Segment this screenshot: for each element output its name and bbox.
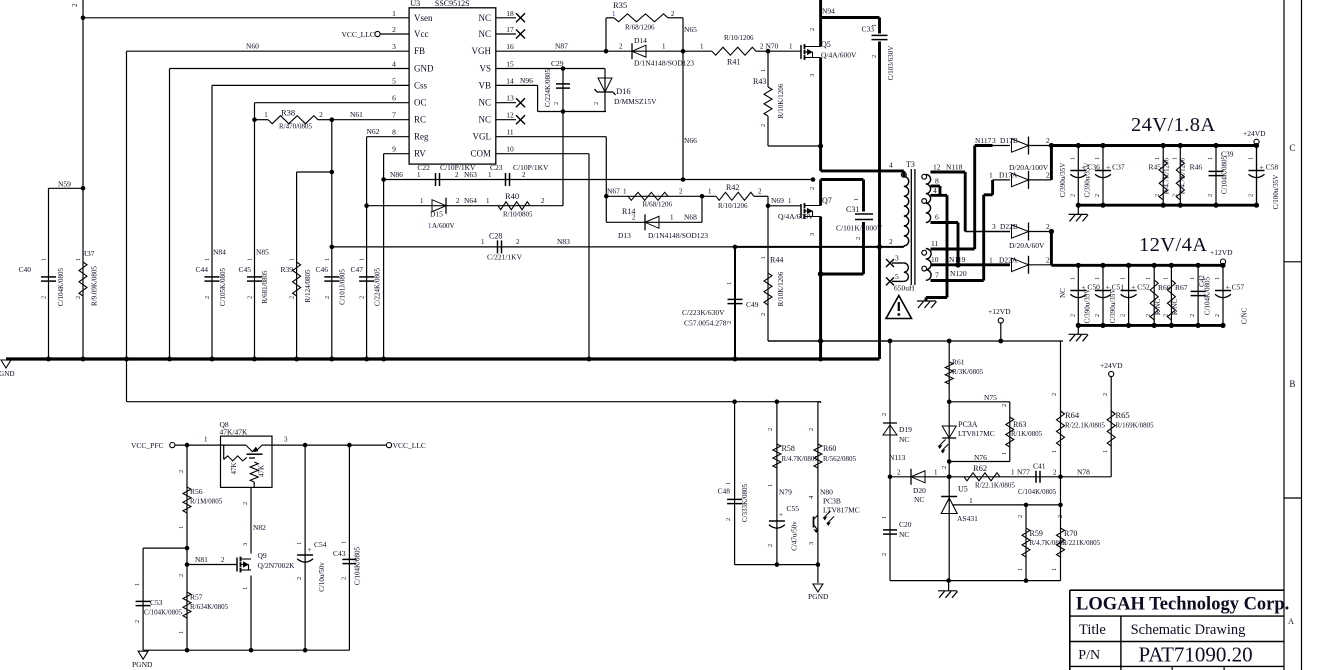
svg-text:P/N: P/N xyxy=(1078,648,1100,663)
svg-text:R58: R58 xyxy=(782,444,795,453)
svg-text:PAT71090.20: PAT71090.20 xyxy=(1139,643,1253,667)
svg-text:1: 1 xyxy=(623,188,627,196)
svg-text:B: B xyxy=(1289,379,1295,389)
svg-text:2: 2 xyxy=(41,296,48,299)
svg-text:15: 15 xyxy=(506,60,514,69)
svg-text:C55: C55 xyxy=(787,504,800,513)
svg-text:2: 2 xyxy=(221,556,225,564)
svg-text:1: 1 xyxy=(725,482,732,485)
svg-text:D15: D15 xyxy=(430,210,443,219)
svg-text:N94: N94 xyxy=(822,7,835,16)
svg-text:R/68/1206: R/68/1206 xyxy=(643,201,673,209)
svg-text:1: 1 xyxy=(767,484,774,487)
svg-text:1: 1 xyxy=(178,631,185,634)
svg-text:1: 1 xyxy=(1248,157,1255,160)
svg-text:1: 1 xyxy=(881,516,888,519)
svg-text:N60: N60 xyxy=(246,42,259,51)
svg-text:2: 2 xyxy=(855,237,862,240)
svg-text:C/224K/0805: C/224K/0805 xyxy=(374,267,382,306)
svg-text:U5: U5 xyxy=(958,485,968,494)
svg-text:C/100u/35V: C/100u/35V xyxy=(1272,175,1280,210)
svg-text:2: 2 xyxy=(1102,393,1109,396)
svg-text:C40: C40 xyxy=(18,265,31,274)
svg-text:1: 1 xyxy=(392,9,396,18)
svg-text:D16: D16 xyxy=(616,86,631,96)
svg-text:R/3K/0805: R/3K/0805 xyxy=(952,368,984,376)
svg-text:C20: C20 xyxy=(899,520,912,529)
svg-text:18: 18 xyxy=(506,9,514,18)
svg-text:R/9.09K/0805: R/9.09K/0805 xyxy=(91,266,99,306)
svg-text:C/221/1KV: C/221/1KV xyxy=(487,253,523,262)
svg-text:R70: R70 xyxy=(1064,529,1077,538)
svg-text:3: 3 xyxy=(992,136,996,145)
svg-text:2: 2 xyxy=(619,43,623,51)
svg-text:8: 8 xyxy=(392,128,396,137)
svg-text:C/10P/1KV: C/10P/1KV xyxy=(440,163,476,172)
svg-text:R/NC: R/NC xyxy=(1171,299,1179,316)
svg-text:2: 2 xyxy=(760,313,767,316)
svg-text:1: 1 xyxy=(1145,277,1152,280)
svg-text:2: 2 xyxy=(897,468,901,476)
svg-text:R/10/0805: R/10/0805 xyxy=(503,211,533,219)
svg-text:1: 1 xyxy=(1017,568,1024,571)
svg-text:R65: R65 xyxy=(1116,410,1130,420)
svg-text:C/101J/0805: C/101J/0805 xyxy=(339,269,347,305)
svg-text:R/470/0805: R/470/0805 xyxy=(279,123,313,131)
svg-text:R35: R35 xyxy=(613,0,627,10)
svg-text:2: 2 xyxy=(75,296,82,299)
svg-text:2: 2 xyxy=(881,553,888,556)
svg-text:1: 1 xyxy=(296,542,303,545)
svg-text:N82: N82 xyxy=(253,523,266,532)
svg-text:2: 2 xyxy=(809,28,816,31)
svg-text:1: 1 xyxy=(1094,277,1101,280)
svg-text:R40: R40 xyxy=(505,191,519,201)
svg-text:C/104K/0805: C/104K/0805 xyxy=(354,546,362,585)
svg-text:1: 1 xyxy=(341,541,348,544)
svg-text:1: 1 xyxy=(486,197,490,205)
svg-text:12V/4A: 12V/4A xyxy=(1139,234,1207,256)
svg-text:Schematic Drawing: Schematic Drawing xyxy=(1131,622,1246,638)
svg-text:VCC_PFC: VCC_PFC xyxy=(131,441,164,450)
svg-text:2: 2 xyxy=(1120,314,1127,317)
svg-text:1: 1 xyxy=(670,214,674,222)
svg-text:N77: N77 xyxy=(1017,467,1030,476)
svg-text:8: 8 xyxy=(935,177,939,186)
svg-text:2: 2 xyxy=(134,620,141,623)
svg-text:N120: N120 xyxy=(950,269,967,278)
svg-text:LTV817MC: LTV817MC xyxy=(958,429,995,438)
svg-text:R/10K/1206: R/10K/1206 xyxy=(777,83,785,118)
svg-text:5: 5 xyxy=(895,272,899,281)
svg-text:2: 2 xyxy=(296,577,303,580)
svg-text:47K: 47K xyxy=(230,462,238,474)
svg-text:2: 2 xyxy=(1017,515,1024,518)
svg-text:1: 1 xyxy=(700,43,704,51)
svg-text:RV: RV xyxy=(414,149,426,159)
svg-text:N76: N76 xyxy=(974,453,987,462)
svg-text:RC: RC xyxy=(414,115,426,125)
svg-text:N65: N65 xyxy=(684,25,697,34)
svg-text:NC: NC xyxy=(1059,288,1067,298)
svg-text:1: 1 xyxy=(488,171,492,179)
svg-text:1: 1 xyxy=(760,69,767,72)
svg-text:R/22.1K/0805: R/22.1K/0805 xyxy=(1065,422,1105,430)
svg-text:C44: C44 xyxy=(195,265,208,274)
svg-text:C47: C47 xyxy=(350,265,363,274)
svg-text:D17B: D17B xyxy=(1000,136,1018,145)
svg-text:D22A: D22A xyxy=(999,255,1018,264)
svg-text:C/104K/0805: C/104K/0805 xyxy=(144,609,183,617)
svg-text:1: 1 xyxy=(1120,277,1127,280)
svg-text:C29: C29 xyxy=(551,59,564,68)
svg-text:1: 1 xyxy=(1069,277,1076,280)
svg-text:C/103/630V: C/103/630V xyxy=(887,46,895,81)
svg-text:R37: R37 xyxy=(82,249,95,258)
svg-text:D/20A/60V: D/20A/60V xyxy=(1009,241,1045,250)
svg-text:2: 2 xyxy=(1069,194,1076,197)
svg-text:2: 2 xyxy=(1069,314,1076,317)
svg-text:2: 2 xyxy=(178,470,185,473)
svg-text:PGND: PGND xyxy=(808,592,829,601)
svg-text:2: 2 xyxy=(632,214,636,222)
svg-text:R/562/0805: R/562/0805 xyxy=(823,455,857,463)
svg-text:C/224K/0805: C/224K/0805 xyxy=(544,68,552,107)
svg-text:2: 2 xyxy=(1046,136,1050,145)
svg-text:N113: N113 xyxy=(889,453,906,462)
svg-text:2: 2 xyxy=(1248,194,1255,197)
svg-text:2: 2 xyxy=(889,237,893,246)
svg-text:1: 1 xyxy=(1207,157,1214,160)
svg-text:1: 1 xyxy=(1051,450,1058,453)
svg-text:10: 10 xyxy=(506,145,514,154)
svg-text:R/169K/0805: R/169K/0805 xyxy=(1116,422,1155,430)
svg-text:1: 1 xyxy=(1154,157,1161,160)
svg-text:R/4.7K/0805: R/4.7K/0805 xyxy=(1030,539,1067,547)
svg-text:N61: N61 xyxy=(350,110,363,119)
svg-text:NC: NC xyxy=(478,98,491,108)
svg-text:Q5: Q5 xyxy=(821,40,831,49)
svg-text:1: 1 xyxy=(1001,452,1008,455)
svg-text:4: 4 xyxy=(392,60,396,69)
svg-text:1: 1 xyxy=(853,198,860,201)
svg-text:C/333K/0805: C/333K/0805 xyxy=(741,483,749,522)
svg-text:Q/4A/600V: Q/4A/600V xyxy=(821,51,857,60)
svg-text:3: 3 xyxy=(808,542,815,545)
svg-text:C42: C42 xyxy=(1198,275,1206,287)
svg-text:PC3B: PC3B xyxy=(823,497,841,506)
svg-text:VS: VS xyxy=(479,64,491,74)
svg-text:2: 2 xyxy=(359,296,366,299)
svg-text:Css: Css xyxy=(414,80,428,90)
svg-text:R64: R64 xyxy=(1065,410,1080,420)
svg-text:2: 2 xyxy=(1207,194,1214,197)
svg-text:3: 3 xyxy=(242,543,249,546)
svg-text:1: 1 xyxy=(204,436,208,444)
svg-text:1: 1 xyxy=(134,583,141,586)
svg-text:1: 1 xyxy=(969,496,973,505)
svg-text:2: 2 xyxy=(941,466,948,469)
svg-text:R38: R38 xyxy=(281,108,295,118)
svg-text:R63: R63 xyxy=(1013,420,1026,429)
svg-text:2: 2 xyxy=(767,428,774,431)
svg-text:2: 2 xyxy=(1051,393,1058,396)
svg-text:2: 2 xyxy=(1094,194,1101,197)
svg-text:2: 2 xyxy=(1001,404,1008,407)
svg-text:2: 2 xyxy=(341,577,348,580)
svg-text:2: 2 xyxy=(758,188,762,196)
svg-text:47K: 47K xyxy=(258,465,266,477)
svg-text:1: 1 xyxy=(1171,157,1178,160)
svg-text:+ C52: + C52 xyxy=(1131,283,1150,292)
svg-text:OC: OC xyxy=(414,98,427,108)
svg-text:1: 1 xyxy=(788,197,792,205)
svg-text:N75: N75 xyxy=(984,393,997,402)
svg-text:1: 1 xyxy=(204,258,211,261)
svg-text:C/390u/35V: C/390u/35V xyxy=(1109,289,1117,324)
svg-text:R/68/1206: R/68/1206 xyxy=(625,24,655,32)
svg-text:GND: GND xyxy=(0,370,15,378)
svg-text:R/4.7K/0805: R/4.7K/0805 xyxy=(782,455,819,463)
svg-text:2: 2 xyxy=(881,413,888,416)
svg-text:2: 2 xyxy=(1189,314,1196,317)
svg-text:1: 1 xyxy=(1102,450,1109,453)
svg-text:NC: NC xyxy=(478,29,491,39)
svg-text:COM: COM xyxy=(470,149,491,159)
svg-text:D/1N4148/SOD123: D/1N4148/SOD123 xyxy=(648,231,708,240)
svg-text:R61: R61 xyxy=(952,358,965,367)
svg-text:2: 2 xyxy=(593,102,600,105)
svg-text:AS431: AS431 xyxy=(957,514,978,523)
svg-text:N87: N87 xyxy=(555,42,568,51)
svg-text:+ C57: + C57 xyxy=(1226,283,1245,292)
svg-text:N78: N78 xyxy=(1077,467,1090,476)
svg-text:N79: N79 xyxy=(779,488,792,497)
svg-text:R45: R45 xyxy=(1148,163,1161,172)
svg-text:N59: N59 xyxy=(58,180,71,189)
svg-text:1: 1 xyxy=(264,111,268,119)
svg-text:2: 2 xyxy=(760,124,767,127)
svg-text:Q/2N7002K: Q/2N7002K xyxy=(258,561,296,570)
svg-text:R39: R39 xyxy=(280,265,293,274)
svg-text:N68: N68 xyxy=(684,213,697,222)
svg-text:D13: D13 xyxy=(618,231,631,240)
svg-text:Q/4A/600V: Q/4A/600V xyxy=(778,212,814,221)
svg-text:2: 2 xyxy=(1053,468,1057,476)
svg-text:C53: C53 xyxy=(150,598,163,607)
svg-text:C54: C54 xyxy=(314,540,327,549)
svg-text:+ C58: + C58 xyxy=(1260,163,1279,172)
svg-text:2: 2 xyxy=(809,187,816,190)
svg-text:1: 1 xyxy=(789,43,793,51)
svg-text:16: 16 xyxy=(506,42,514,51)
svg-text:NC: NC xyxy=(899,530,909,539)
svg-text:2: 2 xyxy=(71,3,79,7)
svg-text:1: 1 xyxy=(760,256,767,259)
svg-text:2: 2 xyxy=(392,25,396,34)
svg-text:11: 11 xyxy=(931,239,938,248)
svg-text:C/10u/50v: C/10u/50v xyxy=(318,562,326,592)
svg-text:5: 5 xyxy=(392,76,396,85)
svg-text:C: C xyxy=(1289,143,1295,153)
svg-text:1: 1 xyxy=(989,255,993,264)
svg-text:6: 6 xyxy=(935,213,939,222)
svg-text:2: 2 xyxy=(553,102,560,105)
svg-text:2: 2 xyxy=(1057,515,1064,518)
svg-text:C57.0054.278: C57.0054.278 xyxy=(684,319,727,328)
svg-text:+24VD: +24VD xyxy=(1243,129,1266,138)
svg-text:1: 1 xyxy=(612,10,616,18)
svg-text:R60: R60 xyxy=(823,444,836,453)
svg-text:1: 1 xyxy=(726,282,733,285)
svg-text:1: 1 xyxy=(75,258,82,261)
svg-text:7: 7 xyxy=(392,111,396,120)
svg-text:14: 14 xyxy=(506,76,514,85)
svg-text:1: 1 xyxy=(708,188,712,196)
svg-text:C48: C48 xyxy=(717,487,730,496)
svg-text:12: 12 xyxy=(506,111,514,120)
svg-text:2: 2 xyxy=(204,296,211,299)
svg-text:R56: R56 xyxy=(190,487,203,496)
svg-text:VB: VB xyxy=(478,80,491,90)
svg-text:1: 1 xyxy=(1094,157,1101,160)
svg-text:C/104K/0805: C/104K/0805 xyxy=(1221,155,1229,194)
svg-text:650uH: 650uH xyxy=(894,284,915,293)
svg-text:Vsen: Vsen xyxy=(414,13,433,23)
svg-text:N117: N117 xyxy=(975,136,992,145)
svg-text:2: 2 xyxy=(1046,222,1050,231)
svg-text:7: 7 xyxy=(935,271,939,280)
svg-text:FB: FB xyxy=(414,46,425,56)
svg-text:1: 1 xyxy=(417,171,421,179)
svg-text:2: 2 xyxy=(289,296,296,299)
svg-text:1: 1 xyxy=(1051,568,1058,571)
svg-text:N85: N85 xyxy=(256,248,269,257)
svg-text:C/223K/630V: C/223K/630V xyxy=(682,308,725,317)
svg-text:D/1N4148/SOD123: D/1N4148/SOD123 xyxy=(634,59,694,68)
svg-text:Q7: Q7 xyxy=(822,196,832,205)
svg-text:1: 1 xyxy=(247,258,254,261)
svg-text:2: 2 xyxy=(808,428,815,431)
svg-text:R/10/1206: R/10/1206 xyxy=(724,34,754,42)
svg-text:R46: R46 xyxy=(1190,163,1203,172)
svg-text:R59: R59 xyxy=(1030,529,1043,538)
svg-text:LOGAH Technology Corp.: LOGAH Technology Corp. xyxy=(1076,595,1289,615)
svg-text:2: 2 xyxy=(516,238,520,246)
svg-text:R41: R41 xyxy=(727,58,740,67)
svg-text:C46: C46 xyxy=(315,265,328,274)
svg-text:2: 2 xyxy=(871,55,878,58)
svg-text:1: 1 xyxy=(242,587,249,590)
svg-text:NC: NC xyxy=(478,115,491,125)
svg-text:C/10P/1KV: C/10P/1KV xyxy=(513,163,549,172)
svg-text:+: + xyxy=(779,511,783,519)
svg-text:24V/1.8A: 24V/1.8A xyxy=(1131,114,1216,136)
svg-text:R62: R62 xyxy=(973,463,987,473)
svg-text:+12VD: +12VD xyxy=(988,307,1011,316)
svg-text:2: 2 xyxy=(1214,314,1221,317)
svg-text:NC: NC xyxy=(899,435,909,444)
svg-text:2: 2 xyxy=(242,502,249,505)
svg-text:+: + xyxy=(308,546,312,554)
svg-text:1: 1 xyxy=(934,468,938,476)
svg-text:NC: NC xyxy=(914,495,924,504)
svg-text:R/10/1206: R/10/1206 xyxy=(718,202,748,210)
svg-text:N81: N81 xyxy=(195,555,208,564)
svg-text:R/10K/1206: R/10K/1206 xyxy=(777,271,785,306)
svg-text:N119: N119 xyxy=(949,255,966,264)
svg-text:N70: N70 xyxy=(766,42,779,51)
svg-text:2: 2 xyxy=(725,518,732,521)
svg-text:+ C37: + C37 xyxy=(1106,163,1125,172)
svg-text:R/634K/0805: R/634K/0805 xyxy=(190,603,229,611)
svg-text:13: 13 xyxy=(506,94,514,103)
svg-text:C/104K/0805: C/104K/0805 xyxy=(1018,488,1057,496)
svg-text:C31: C31 xyxy=(846,205,859,214)
svg-text:R/22.1K/0805: R/22.1K/0805 xyxy=(975,482,1015,490)
svg-text:N64: N64 xyxy=(464,196,477,205)
svg-text:PC3A: PC3A xyxy=(958,420,978,429)
svg-text:D19: D19 xyxy=(899,425,912,434)
svg-text:11: 11 xyxy=(506,128,513,137)
svg-text:3: 3 xyxy=(284,436,288,444)
svg-text:10: 10 xyxy=(931,255,939,264)
svg-text:T3: T3 xyxy=(906,160,915,169)
svg-text:N67: N67 xyxy=(607,187,620,196)
svg-text:N80: N80 xyxy=(820,488,833,497)
svg-text:2: 2 xyxy=(324,296,331,299)
svg-text:1: 1 xyxy=(289,258,296,261)
svg-text:47K/47K: 47K/47K xyxy=(220,428,249,437)
svg-text:C/104K/0805: C/104K/0805 xyxy=(57,267,65,306)
svg-text:VCC_LLC: VCC_LLC xyxy=(341,30,374,39)
svg-text:1: 1 xyxy=(420,197,424,205)
svg-text:2: 2 xyxy=(726,321,733,324)
svg-text:N83: N83 xyxy=(557,237,570,246)
svg-text:1: 1 xyxy=(1162,277,1169,280)
svg-text:17: 17 xyxy=(506,25,514,34)
svg-text:6: 6 xyxy=(392,94,396,103)
svg-text:R/221K/0805: R/221K/0805 xyxy=(1062,539,1101,547)
svg-text:C41: C41 xyxy=(1033,462,1046,471)
svg-text:Title: Title xyxy=(1079,622,1106,638)
svg-text:1: 1 xyxy=(1069,157,1076,160)
svg-text:1: 1 xyxy=(662,43,666,51)
svg-text:C/101K/1000V: C/101K/1000V xyxy=(836,224,883,233)
svg-text:2: 2 xyxy=(541,197,545,205)
svg-text:R43: R43 xyxy=(753,77,766,86)
svg-text:1: 1 xyxy=(481,238,485,246)
svg-text:2: 2 xyxy=(767,544,774,547)
svg-text:R/1M/0805: R/1M/0805 xyxy=(190,498,223,506)
svg-text:C28: C28 xyxy=(489,232,502,241)
svg-text:12: 12 xyxy=(933,163,941,172)
svg-text:N62: N62 xyxy=(367,127,380,136)
svg-text:D22B: D22B xyxy=(1000,222,1018,231)
svg-text:2: 2 xyxy=(178,574,185,577)
svg-text:D14: D14 xyxy=(634,36,647,45)
svg-text:1: 1 xyxy=(989,170,993,179)
svg-text:1: 1 xyxy=(359,258,366,261)
svg-text:D/MMSZ15V: D/MMSZ15V xyxy=(614,97,657,106)
svg-text:2: 2 xyxy=(679,188,683,196)
svg-text:C/390u/35V: C/390u/35V xyxy=(1059,163,1067,198)
svg-text:C/47u/50v: C/47u/50v xyxy=(791,521,799,551)
svg-text:2: 2 xyxy=(319,111,323,119)
svg-text:Vcc: Vcc xyxy=(414,29,429,39)
svg-text:C45: C45 xyxy=(238,265,251,274)
svg-text:C/390u/35V: C/390u/35V xyxy=(1084,163,1092,198)
